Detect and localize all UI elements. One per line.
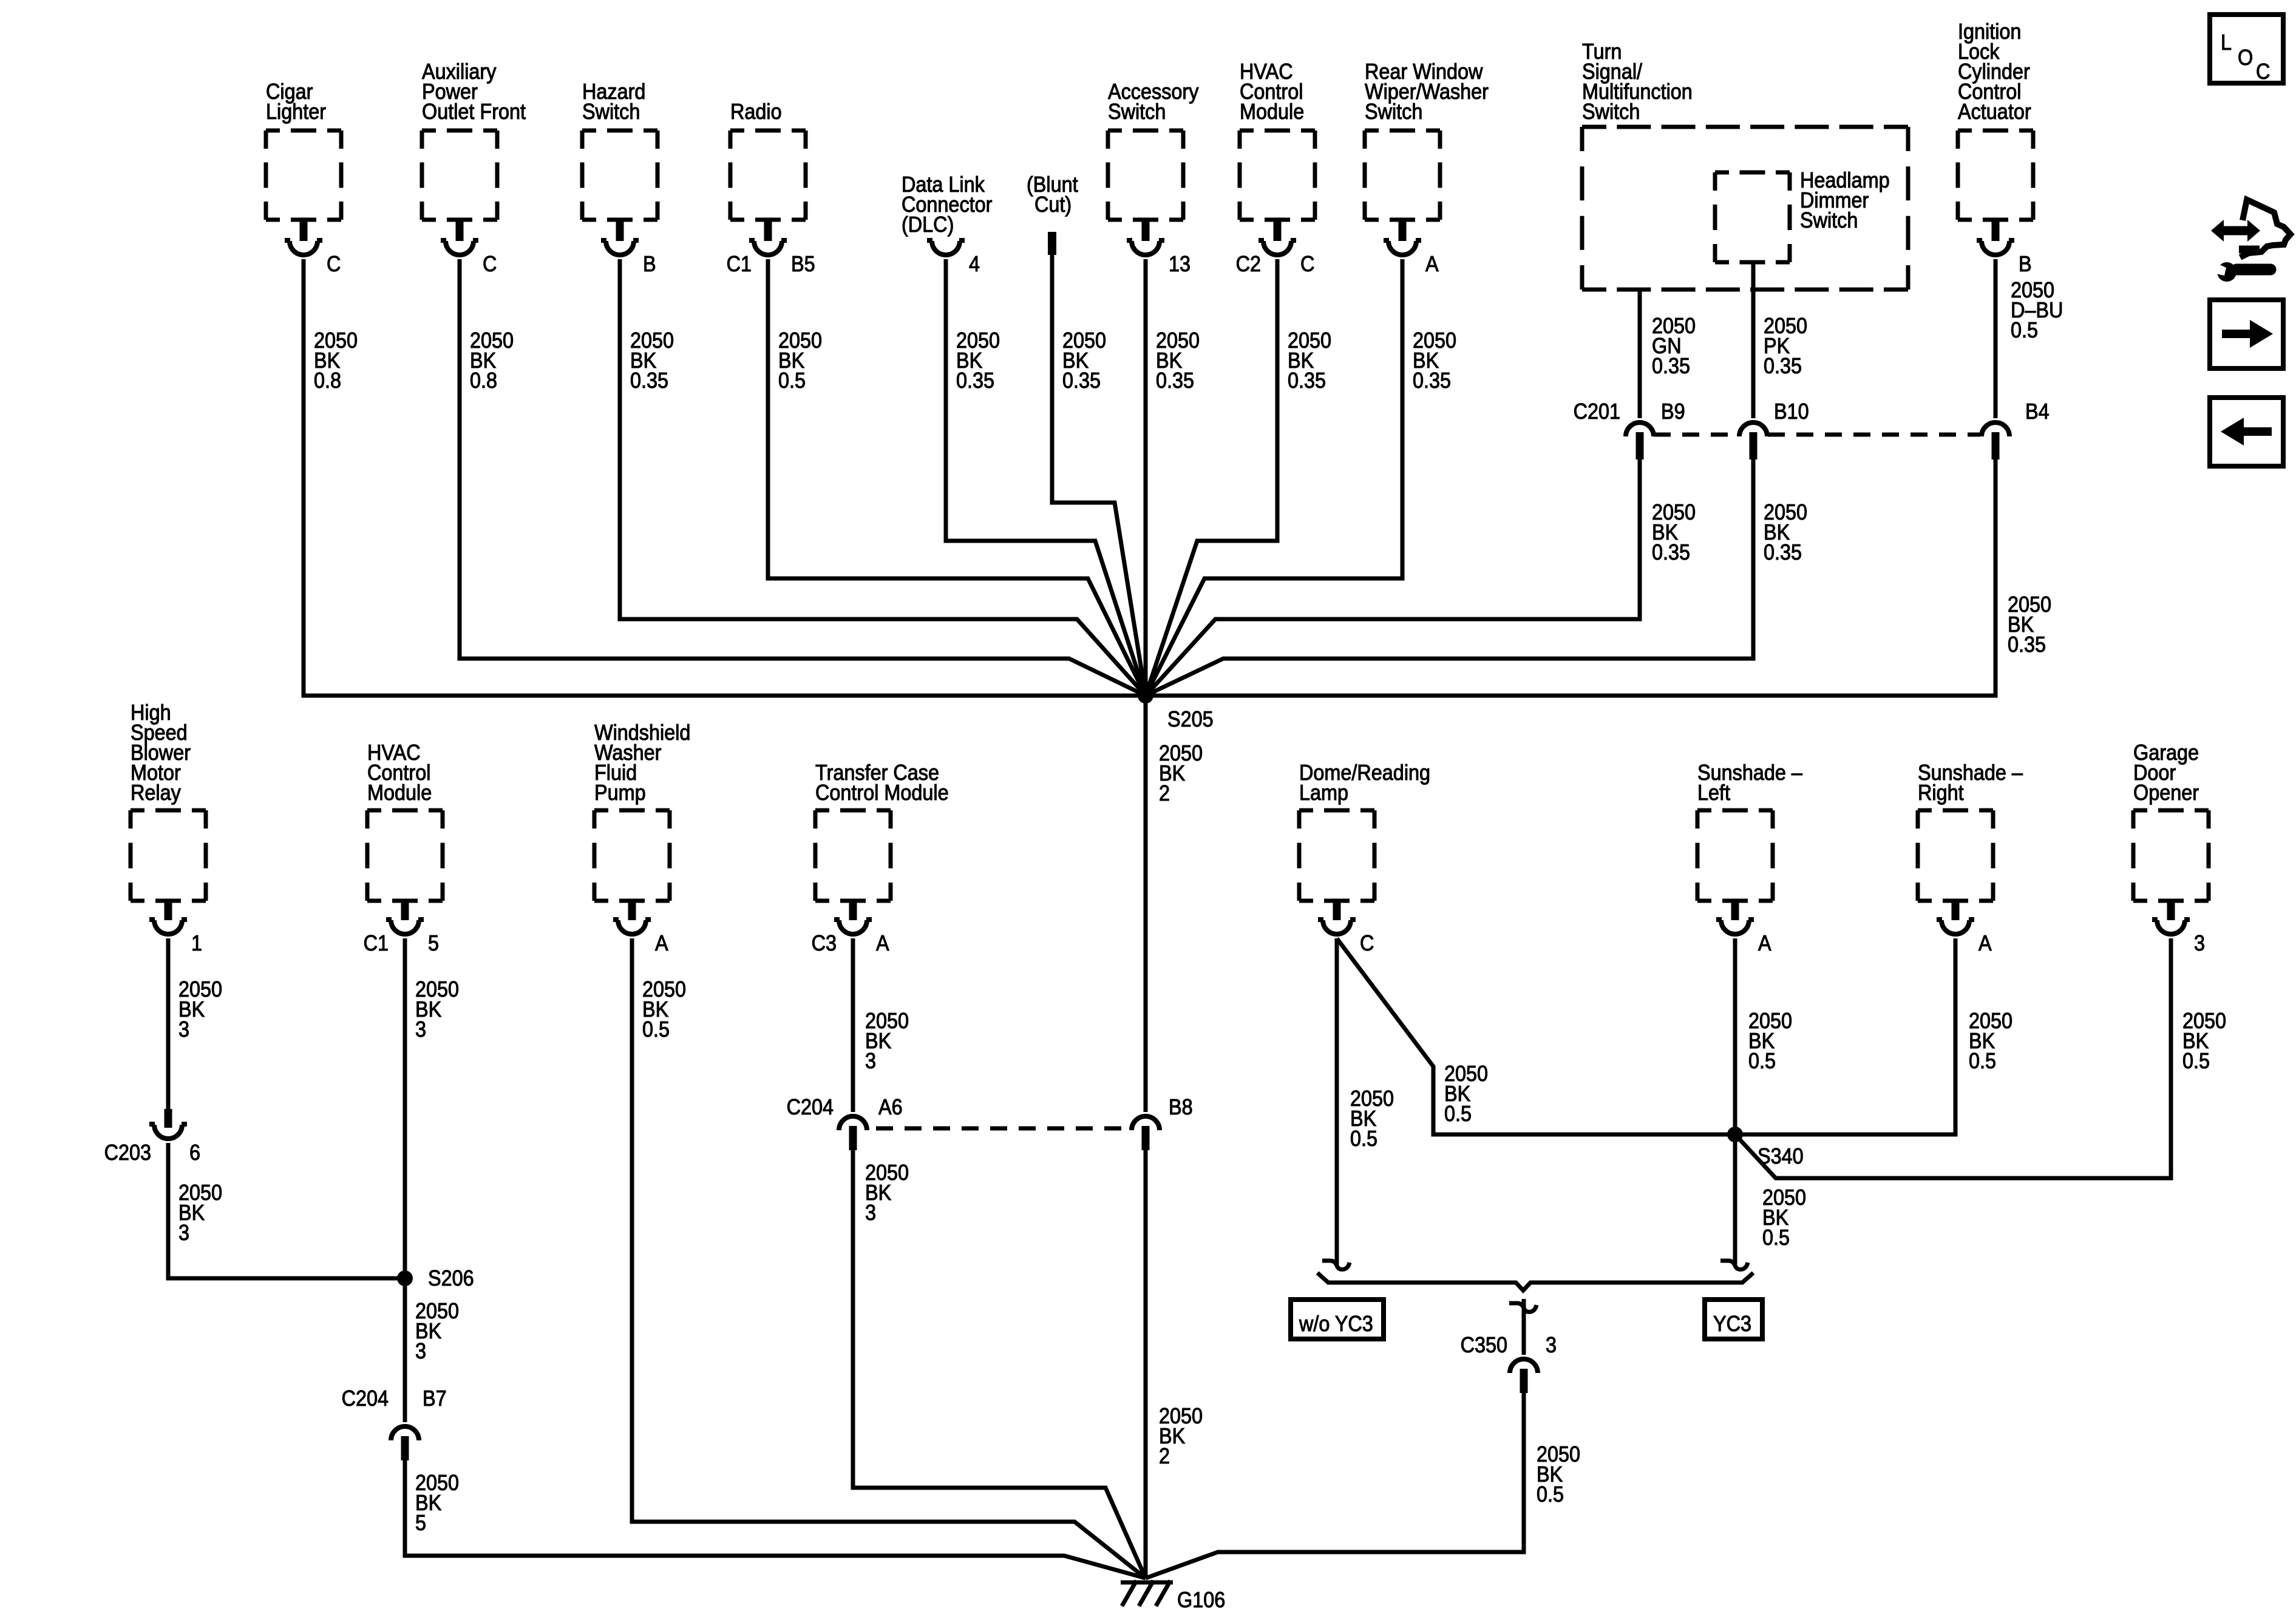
wire 2050 BK 2 C204 B8 to G106 — [1146, 1150, 1203, 1578]
svg-text:0.35: 0.35 — [1764, 540, 1802, 564]
svg-text:0.5: 0.5 — [1762, 1225, 1790, 1250]
svg-text:L: L — [2221, 30, 2232, 55]
wire 2050 BK 0.35 DLC to S205 — [946, 259, 1146, 696]
legend service icon (wrench and arrows) — [2211, 200, 2291, 282]
splice S205 — [1138, 688, 1214, 731]
component Garage Door Opener — [2133, 741, 2209, 955]
wire 2050 BK 0.5 sunshade right to S340 — [1735, 938, 2012, 1134]
svg-text:3: 3 — [178, 1017, 189, 1042]
svg-text:C204: C204 — [342, 1386, 389, 1411]
wire 2050 BK 0.35 accessory switch to S205 — [1146, 259, 1200, 696]
connector C201 pin B4 — [1982, 399, 2050, 459]
svg-text:A: A — [655, 931, 668, 955]
wire 2050 BK 3 C203 to S206 — [168, 1143, 405, 1278]
wire 2050 BK 0.35 C201 B4 to S205 — [1146, 459, 2051, 696]
svg-text:Module: Module — [367, 781, 432, 805]
svg-text:C1: C1 — [364, 931, 389, 955]
svg-text:Cut): Cut) — [1034, 192, 1072, 217]
svg-text:0.35: 0.35 — [1062, 368, 1101, 393]
svg-text:0.5: 0.5 — [2011, 318, 2038, 342]
svg-text:Switch: Switch — [1582, 100, 1640, 124]
svg-text:A: A — [876, 931, 889, 955]
splice S340 — [1727, 1127, 1804, 1168]
svg-text:Lamp: Lamp — [1299, 781, 1348, 805]
connector C201 pin B10 — [1739, 399, 1809, 459]
svg-text:A6: A6 — [878, 1095, 903, 1119]
svg-text:0.35: 0.35 — [1156, 368, 1194, 393]
svg-text:6: 6 — [189, 1141, 200, 1165]
svg-text:0.5: 0.5 — [2182, 1049, 2210, 1073]
svg-text:0.35: 0.35 — [1652, 540, 1690, 564]
connector C204 pin A6 — [787, 1095, 903, 1150]
svg-text:3: 3 — [178, 1221, 189, 1245]
option brace — [1317, 1273, 1753, 1290]
component HVAC Control Module (lower) — [364, 741, 443, 955]
svg-text:0.5: 0.5 — [642, 1017, 670, 1042]
component Ignition Lock Cylinder Control Actuator — [1958, 19, 2033, 276]
svg-text:w/o YC3: w/o YC3 — [1299, 1312, 1373, 1336]
svg-text:C1: C1 — [727, 252, 752, 276]
wire 2050 BK 5 C204 B7 to G106 — [405, 1460, 1146, 1578]
component Headlamp Dimmer Switch — [1715, 168, 1890, 262]
svg-text:Opener: Opener — [2133, 781, 2199, 805]
component High Speed Blower Motor Relay — [131, 700, 206, 955]
svg-text:C201: C201 — [1574, 399, 1620, 424]
connector C204 A6-B8 dashed link — [876, 1127, 1123, 1131]
svg-text:5: 5 — [415, 1511, 426, 1535]
svg-text:0.35: 0.35 — [1652, 354, 1690, 378]
svg-text:0.5: 0.5 — [1350, 1127, 1377, 1151]
wire 2050 BK 3 transfer case control module to C204 A6 — [853, 938, 909, 1112]
svg-text:Pump: Pump — [594, 781, 646, 805]
wire 2050 BK 3 blower motor relay to C203 — [168, 938, 222, 1109]
svg-text:4: 4 — [969, 252, 980, 276]
wire 2050 BK 0.35 blunt cut to S205 — [1052, 255, 1146, 696]
component Dome/Reading Lamp — [1299, 761, 1430, 955]
svg-text:3: 3 — [865, 1201, 876, 1225]
component Turn Signal/Multifunction Switch — [1582, 39, 1908, 290]
svg-text:B9: B9 — [1661, 399, 1685, 424]
svg-text:2: 2 — [1159, 1444, 1170, 1468]
svg-text:C3: C3 — [812, 931, 837, 955]
svg-text:Control Module: Control Module — [815, 781, 949, 805]
svg-text:C: C — [1360, 931, 1374, 955]
svg-text:B10: B10 — [1774, 399, 1809, 424]
option label w/o YC3 — [1291, 1300, 1384, 1339]
wire 2050 BK 3 S206 to C204 B7 — [405, 1278, 459, 1422]
wire 2050 PK 0.35 headlamp dimmer switch to C201 B10 — [1753, 262, 1807, 418]
wire 2050 BK 0.35 hazard switch to S205 — [620, 259, 1146, 696]
svg-text:0.35: 0.35 — [630, 368, 668, 393]
svg-text:(DLC): (DLC) — [902, 212, 954, 237]
connector C204 pin B7 — [342, 1386, 447, 1460]
component Radio — [727, 100, 815, 276]
svg-text:Switch: Switch — [1365, 100, 1422, 124]
svg-text:A: A — [1978, 931, 1992, 955]
svg-text:C204: C204 — [787, 1095, 834, 1119]
wire 2050 BK 0.5 sunshade left to S340 — [1735, 938, 1792, 1134]
svg-text:1: 1 — [191, 931, 202, 955]
svg-text:Outlet Front: Outlet Front — [422, 100, 526, 124]
component Sunshade - Left — [1697, 761, 1803, 955]
svg-text:S340: S340 — [1758, 1144, 1804, 1168]
svg-text:Left: Left — [1697, 781, 1730, 805]
wire 2050 BK 2 S205 to C204 B8 — [1146, 696, 1203, 1112]
connector C203 pin 6 — [104, 1109, 200, 1165]
svg-text:C: C — [327, 252, 341, 276]
svg-text:0.8: 0.8 — [314, 368, 341, 393]
connector C204 pin B8 — [1132, 1095, 1193, 1150]
svg-text:0.5: 0.5 — [1444, 1102, 1472, 1126]
svg-text:3: 3 — [415, 1339, 426, 1363]
wire 2050 BK 0.8 cigar lighter to S205 — [304, 259, 1146, 696]
component Sunshade - Right — [1918, 761, 2023, 955]
svg-text:O: O — [2238, 46, 2253, 70]
wire 2050 BK 0.35 C201 B10 to S205 — [1146, 459, 1807, 696]
svg-text:0.5: 0.5 — [1969, 1049, 1996, 1073]
svg-text:3: 3 — [2194, 931, 2205, 955]
svg-text:3: 3 — [415, 1017, 426, 1042]
svg-text:0.8: 0.8 — [470, 368, 497, 393]
svg-text:Right: Right — [1918, 781, 1964, 805]
wire 2050 BK 3 HVAC control module to S206 — [405, 938, 459, 1278]
component Auxiliary Power Outlet Front — [422, 59, 526, 276]
svg-text:Switch: Switch — [582, 100, 640, 124]
svg-text:0.35: 0.35 — [1764, 354, 1802, 378]
wire 2050 GN 0.35 turn signal switch to C201 B9 — [1640, 290, 1696, 418]
wire 2050 BK 0.5 garage door opener to S340 — [1735, 938, 2226, 1178]
svg-text:C350: C350 — [1461, 1333, 1507, 1357]
svg-text:B8: B8 — [1169, 1095, 1193, 1119]
connector C201 dashed link — [1654, 433, 1980, 437]
component HVAC Control Module (top) — [1236, 59, 1315, 276]
svg-text:5: 5 — [428, 931, 439, 955]
svg-text:A: A — [1758, 931, 1771, 955]
wire 2050 BK 0.35 rear window wiper/washer switch to S205 — [1146, 259, 1456, 696]
wire brace to C350 — [1509, 1299, 1537, 1355]
svg-text:0.5: 0.5 — [778, 368, 806, 393]
wire 2050 BK 0.5 C350 to G106 — [1146, 1393, 1580, 1578]
legend back arrow box — [2210, 398, 2283, 466]
svg-text:Switch: Switch — [1108, 100, 1166, 124]
wire 2050 BK 3 C204 A6 to G106 — [853, 1150, 1146, 1578]
svg-text:B5: B5 — [791, 252, 815, 276]
component Rear Window Wiper/Washer Switch — [1365, 59, 1489, 276]
svg-text:0.35: 0.35 — [956, 368, 994, 393]
component Windshield Washer Fluid Pump — [594, 720, 690, 955]
svg-text:C203: C203 — [104, 1141, 151, 1165]
wire 2050 BK 0.5 washer fluid pump to G106 — [632, 938, 1146, 1578]
blunt cut wire end — [1027, 172, 1078, 255]
svg-text:G106: G106 — [1177, 1588, 1225, 1612]
svg-text:0.35: 0.35 — [1413, 368, 1451, 393]
svg-text:B: B — [643, 252, 656, 276]
svg-text:2: 2 — [1159, 781, 1170, 805]
component Cigar Lighter — [266, 80, 341, 276]
svg-text:C: C — [483, 252, 497, 276]
wire 2050 D-BU 0.5 ignition lock actuator to C201 B4 — [1995, 259, 2063, 418]
connector C201 pin B9 — [1574, 399, 1685, 459]
svg-text:3: 3 — [1546, 1333, 1557, 1357]
svg-text:B4: B4 — [2025, 399, 2050, 424]
component Transfer Case Control Module — [812, 761, 949, 955]
connector C350 pin 3 — [1461, 1333, 1557, 1393]
wire 2050 BK 0.5 dome lamp branch (w/o YC3) — [1322, 938, 1394, 1269]
svg-text:Relay: Relay — [131, 781, 182, 805]
svg-text:C: C — [2256, 59, 2270, 84]
svg-text:B7: B7 — [423, 1386, 447, 1411]
component Hazard Switch — [582, 80, 657, 276]
wire 2050 BK 0.5 dome lamp to S340 — [1337, 938, 1735, 1134]
svg-text:Lighter: Lighter — [266, 100, 326, 124]
svg-text:13: 13 — [1169, 252, 1190, 276]
legend LOC box — [2210, 15, 2283, 84]
svg-text:S206: S206 — [428, 1266, 474, 1290]
svg-text:YC3: YC3 — [1713, 1312, 1751, 1336]
svg-text:Switch: Switch — [1800, 208, 1858, 232]
svg-text:Actuator: Actuator — [1958, 100, 2031, 124]
svg-text:A: A — [1425, 252, 1439, 276]
component Accessory Switch — [1108, 80, 1199, 276]
svg-text:S205: S205 — [1167, 707, 1214, 731]
svg-text:0.5: 0.5 — [1748, 1049, 1776, 1073]
svg-text:C: C — [1300, 252, 1314, 276]
svg-text:Radio: Radio — [730, 100, 782, 124]
svg-text:C2: C2 — [1236, 252, 1261, 276]
svg-text:Module: Module — [1240, 100, 1304, 124]
wire 2050 BK 0.8 aux power outlet to S205 — [460, 259, 1146, 696]
connector Data Link Connector (DLC) pin 4 — [902, 172, 992, 276]
ground G106 — [1121, 1581, 1225, 1612]
svg-text:0.35: 0.35 — [1288, 368, 1326, 393]
wire 2050 BK 0.35 C201 B9 to S205 — [1146, 459, 1696, 696]
splice S206 — [397, 1266, 474, 1290]
svg-text:B: B — [2019, 252, 2032, 276]
svg-text:0.5: 0.5 — [1537, 1482, 1564, 1507]
svg-text:3: 3 — [865, 1049, 876, 1073]
legend forward arrow box — [2210, 300, 2283, 368]
option label YC3 — [1705, 1300, 1762, 1339]
wire 2050 BK 0.5 radio to S205 — [768, 259, 1146, 696]
svg-text:0.35: 0.35 — [2008, 632, 2046, 657]
wire 2050 BK 0.35 HVAC control module to S205 — [1146, 259, 1331, 696]
wire 2050 BK 0.5 S340 down (YC3) — [1720, 1134, 1806, 1269]
